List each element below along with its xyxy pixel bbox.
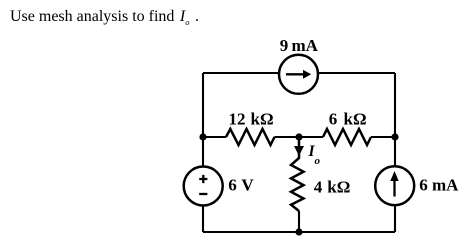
svg-text:12kΩ: 12kΩ bbox=[229, 110, 274, 129]
value label 6 V bbox=[228, 176, 254, 195]
junction node D (bottom, 4k to bottom rail) bbox=[295, 228, 302, 235]
svg-text:6V: 6V bbox=[228, 176, 254, 195]
svg-text:9mA: 9mA bbox=[280, 36, 319, 55]
svg-text:4kΩ: 4kΩ bbox=[314, 177, 351, 196]
wire: top (node between 9mA source terminals along top rail) bbox=[203, 72, 395, 74]
wire: center vertical lead below 4k resistor bbox=[298, 211, 300, 232]
wire: right rail bbox=[394, 73, 396, 232]
voltage source V1 plus sign bbox=[199, 175, 207, 183]
current arrow Io (into 4k branch) bbox=[294, 146, 304, 156]
current source I1 arrow (points right) bbox=[286, 70, 311, 79]
svg-text:6kΩ: 6kΩ bbox=[329, 110, 367, 129]
value label 12 kOhm bbox=[229, 110, 274, 129]
wire: middle branch left lead bbox=[203, 136, 226, 138]
junction node B (center, Io node) bbox=[295, 133, 302, 140]
value label 6 mA bbox=[419, 176, 459, 195]
current source I1 9mA (circle) bbox=[279, 55, 318, 94]
resistor R2 6 kOhm bbox=[323, 129, 371, 145]
value label 6 kOhm bbox=[329, 110, 367, 129]
wire: left rail bbox=[202, 73, 204, 232]
resistor R3 4 kOhm (vertical) bbox=[291, 139, 304, 211]
current label Io bbox=[308, 143, 321, 167]
junction node C (right, 6k to right rail) bbox=[391, 133, 398, 140]
resistor R1 12 kOhm bbox=[226, 129, 275, 145]
current source I2 arrow (points up) bbox=[390, 171, 398, 197]
svg-text:Io: Io bbox=[308, 143, 321, 167]
value label 9 mA bbox=[280, 36, 319, 55]
svg-text:Use mesh analysis to find Io .: Use mesh analysis to find Io . bbox=[10, 8, 199, 27]
value label 4 kOhm bbox=[314, 177, 351, 196]
wire: bottom rail bbox=[203, 231, 395, 233]
voltage source V1 6V (circle) bbox=[184, 167, 223, 206]
junction node A (left, 12k to left rail) bbox=[199, 133, 206, 140]
svg-text:6mA: 6mA bbox=[419, 176, 459, 195]
wire: middle branch right lead bbox=[371, 136, 395, 138]
current source I2 6mA (circle) bbox=[375, 166, 414, 205]
title text bbox=[10, 8, 199, 27]
wire: middle branch center lead bbox=[275, 136, 324, 138]
voltage source V1 minus sign bbox=[199, 193, 207, 195]
